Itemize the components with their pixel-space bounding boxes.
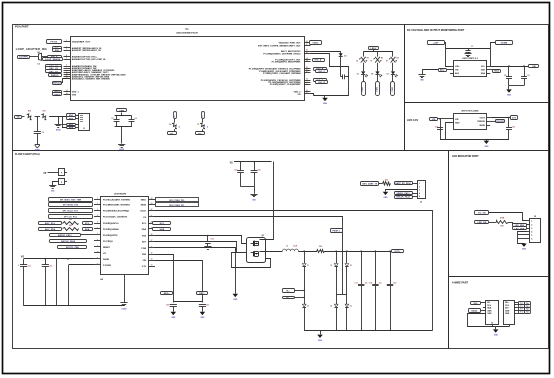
svg-text:C9: C9: [527, 75, 529, 77]
svg-text:ISO_E: ISO_E: [318, 82, 325, 84]
svg-text:SWCLK: SWCLK: [53, 83, 62, 85]
net label DBG_TX: [361, 182, 379, 186]
svg-text:P-DVDD: P-DVDD: [103, 265, 111, 267]
svg-text:PT100: PT100: [51, 41, 58, 43]
svg-text:SWDIO_PA13: SWDIO_PA13: [397, 192, 410, 195]
svg-text:J1: J1: [83, 128, 85, 130]
wire vertical stub 3: [56, 259, 58, 306]
svg-text:MISO: MISO: [141, 200, 147, 202]
svg-text:10: 10: [66, 73, 68, 75]
section frame 4-wire part: [449, 277, 549, 349]
section frame flow chart part: [13, 151, 449, 349]
capacitor C15: [254, 162, 256, 171]
svg-text:10: 10: [97, 251, 99, 253]
capacitor C6: [131, 116, 133, 120]
capacitor C11: [508, 118, 510, 128]
wire left down rail: [440, 119, 442, 140]
svg-text:SCL: SCL: [85, 223, 90, 225]
svg-text:GND: GND: [487, 313, 492, 315]
wire J3 bottom stub: [492, 325, 494, 327]
svg-text:5: 5: [66, 58, 67, 60]
svg-text:R4: R4: [396, 57, 398, 60]
net label SWCLK (left row 12 via jog): [53, 82, 62, 85]
svg-text:11: 11: [66, 75, 68, 77]
svg-text:GND: GND: [507, 95, 512, 97]
svg-text:C10: C10: [435, 126, 438, 128]
svg-text:Z3: Z3: [330, 265, 332, 267]
svg-text:SDA2: SDA2: [471, 309, 478, 312]
capacitor C12 polarized: [20, 264, 27, 266]
svg-text:SCL: SCL: [160, 223, 165, 225]
svg-text:VS: VS: [230, 162, 234, 164]
LED D3: [361, 71, 365, 74]
svg-text:DBG_UART_TX: DBG_UART_TX: [362, 183, 378, 186]
net label SWDIO (left row 10): [49, 74, 62, 77]
svg-text:SN2: SN2: [69, 118, 74, 120]
net label PWRGD tag: [490, 121, 495, 123]
svg-text:EXT_REF2_OUT/FB_SENSE/COMP1_OU: EXT_REF2_OUT/FB_SENSE/COMP1_OUT: [258, 46, 301, 48]
net label SWD_IO (U4 left row7): [50, 234, 81, 237]
net label VIN24 power tag: [428, 41, 445, 45]
svg-text:470R: 470R: [500, 217, 505, 220]
capacitor C16 gate filter: [207, 236, 209, 242]
resistor R12 vertical tag: [174, 112, 177, 119]
net label SPI MOSI (U4 left row2): [49, 203, 93, 207]
svg-text:28: 28: [306, 41, 308, 43]
wire row12 feed: [69, 264, 95, 266]
resistor R2 (LED string 1): [363, 52, 365, 57]
svg-text:2K2: 2K2: [69, 225, 72, 227]
svg-text:6: 6: [66, 64, 67, 66]
svg-text:C7: C7: [471, 46, 473, 48]
svg-text:C14: C14: [234, 169, 237, 172]
wire U4 ground stem: [124, 275, 126, 303]
wire sense lower branch: [63, 117, 67, 128]
connector J4: [504, 301, 515, 325]
net label LED_EN: [475, 221, 489, 224]
wire PWM low to gate bus: [155, 217, 343, 295]
net label VDD2 (right row 1): [310, 41, 322, 45]
wire DC_OK to J2 pin1: [489, 213, 527, 221]
svg-text:C12: C12: [28, 265, 31, 267]
svg-text:FLOW CHART (PGA): FLOW CHART (PGA): [15, 153, 40, 156]
wire R11 to tag block: [49, 116, 66, 118]
svg-text:18: 18: [151, 234, 153, 236]
svg-text:P1.2/IRQ4/SPI1_MISO/PWM1: P1.2/IRQ4/SPI1_MISO/PWM1: [272, 61, 302, 64]
net label OSC_X1 (left row 6): [46, 65, 62, 68]
svg-text:4: 4: [419, 192, 420, 195]
svg-text:SDA: SDA: [85, 228, 90, 231]
svg-text:C19: C19: [393, 283, 396, 285]
svg-text:VDD2/ISO_PWR_OUT: VDD2/ISO_PWR_OUT: [279, 42, 302, 44]
capacitor C21: [199, 304, 206, 306]
svg-text:4: 4: [531, 230, 532, 233]
svg-text:SWDIO_PA13: SWDIO_PA13: [58, 234, 72, 237]
svg-text:C13: C13: [49, 265, 52, 267]
svg-text:MCU_XTAL1_PF0: MCU_XTAL1_PF0: [169, 199, 184, 202]
net label REF+ tag: [161, 292, 173, 295]
svg-text:C16: C16: [211, 238, 214, 240]
wire bottom rail left: [24, 305, 124, 307]
net label 3V3 tag: [511, 116, 518, 120]
wire tags to J3: [480, 302, 485, 304]
resistor R3 (LED string 2): [377, 52, 379, 57]
svg-text:10u: 10u: [379, 283, 382, 285]
svg-text:DIO: DIO: [505, 308, 509, 310]
svg-text:2: 2: [531, 224, 532, 226]
wire R10 to junction: [35, 116, 41, 118]
capacitor C7 on rail: [468, 49, 470, 51]
wire N1 to AIN tag: [42, 56, 48, 58]
svg-text:ADJ: ADJ: [455, 72, 459, 75]
svg-text:3: 3: [531, 228, 532, 230]
ground group B: [118, 144, 125, 146]
ground C21: [200, 312, 206, 315]
svg-text:SCL: SCL: [142, 223, 147, 225]
svg-text:1: 1: [66, 40, 67, 42]
svg-text:VM: VM: [532, 66, 535, 68]
wire J4 bottom stub: [509, 325, 511, 327]
wire LED top rail: [363, 51, 393, 53]
LED D4: [375, 71, 379, 74]
wire VDDM down to U2: [491, 43, 496, 67]
net label XTAL1 (U4 right row1): [156, 198, 199, 202]
ground jumper group: [49, 185, 56, 187]
svg-text:AIN10/ADC3_GAIN/INT_REF_EN/SW5: AIN10/ADC3_GAIN/INT_REF_EN/SW5: [72, 77, 111, 80]
svg-text:GND: GND: [522, 249, 527, 251]
svg-text:J5: J5: [420, 201, 422, 203]
svg-text:8: 8: [66, 69, 67, 71]
svg-text:LED_GRN: LED_GRN: [515, 228, 525, 230]
U1 right pin stubs: [304, 42, 311, 44]
svg-text:ISO_A: ISO_A: [315, 59, 322, 62]
svg-text:MOSI: MOSI: [141, 205, 147, 207]
svg-text:R16: R16: [319, 246, 322, 248]
svg-text:22: 22: [151, 209, 153, 211]
svg-text:VDI: VDI: [143, 260, 147, 262]
wire U3 gnd pin down: [446, 123, 451, 140]
wire top rail: [446, 48, 491, 50]
net label RIN+ (left row 2): [53, 47, 62, 50]
net label grid right of J4: [519, 302, 525, 305]
wire tags to J2 pins: [526, 224, 527, 226]
section frame LDO 3.3V: [405, 103, 549, 151]
svg-text:P0.7/IRQ3: P0.7/IRQ3: [103, 241, 114, 243]
svg-text:3: 3: [419, 190, 420, 192]
svg-text:SCL: SCL: [473, 303, 478, 305]
svg-text:+24V: +24V: [433, 41, 439, 44]
net label SWD_CLK (U4 left row8): [50, 240, 87, 243]
net label K2: [196, 132, 205, 135]
svg-text:P0.4/IRQ0/SCL0: P0.4/IRQ0/SCL0: [103, 222, 119, 225]
svg-text:16: 16: [151, 246, 153, 248]
op-amp U1 isolation amplifier IC body: [71, 37, 305, 101]
svg-text:R3: R3: [381, 58, 383, 60]
resistor R11 diagonal: [41, 113, 48, 120]
svg-text:U4 STM32F0: U4 STM32F0: [114, 192, 127, 195]
wire J4 pins to tag grid: [514, 302, 519, 304]
net label ISO_C (right row 8): [316, 70, 328, 73]
svg-text:P0.1/MISO/UART_RX/TMR1: P0.1/MISO/UART_RX/TMR1: [103, 204, 131, 207]
svg-text:VM: VM: [432, 119, 435, 121]
microcontroller U4 body: [101, 197, 149, 275]
wire REF tie: [173, 301, 202, 303]
net label OSC_X3 (left row 8): [46, 70, 62, 73]
svg-text:RESET: RESET: [103, 247, 111, 249]
svg-text:GND: GND: [484, 146, 489, 148]
ground J2: [521, 244, 527, 247]
net label ISO_D (right row 10): [314, 79, 327, 82]
transistor Q1 dual MOSFET package: [247, 238, 266, 263]
diode Z3 Z4 string: [336, 251, 338, 263]
ground hatched near tag block: [58, 117, 60, 124]
net label ADC_SCL + resistor row5: [39, 222, 62, 225]
svg-text:ADC_SDA: ADC_SDA: [45, 228, 56, 231]
svg-text:LED_EN: LED_EN: [478, 222, 487, 224]
wire bottom return bus: [311, 94, 314, 96]
svg-text:25: 25: [306, 52, 308, 54]
svg-text:AIN1/EXT_REF2IN-/ADC1_IN: AIN1/EXT_REF2IN-/ADC1_IN: [72, 49, 101, 52]
ground VS decouple: [254, 187, 256, 194]
capacitor C17 output: [361, 251, 363, 284]
svg-text:VDD: VDD: [481, 70, 486, 72]
svg-text:VSS: VSS: [142, 235, 147, 237]
net label ISO_A (right row 5): [313, 59, 325, 62]
svg-text:D6: D6: [169, 124, 171, 126]
svg-text:GND1: GND1: [54, 94, 61, 96]
connector J3: [486, 301, 499, 325]
svg-text:12: 12: [97, 263, 99, 265]
svg-text:D4: D4: [371, 73, 373, 76]
wire VS decouple rail: [234, 161, 272, 163]
resistor R15: [497, 221, 509, 224]
section frame LED indicator part: [449, 151, 549, 277]
wire R15 to label tags: [508, 222, 513, 224]
ground U4 hatched: [120, 302, 127, 304]
svg-text:GND: GND: [505, 310, 510, 312]
svg-text:ISO_C: ISO_C: [318, 71, 325, 73]
svg-text:1: 1: [419, 183, 420, 185]
svg-text:PWM_L: PWM_L: [332, 230, 341, 232]
svg-text:VIN: VIN: [455, 70, 459, 72]
net label SDA1 (U4 right row6): [155, 228, 157, 230]
wire VIN24 down to U2: [445, 43, 451, 67]
svg-text:23: 23: [306, 60, 308, 62]
svg-text:23: 23: [151, 203, 153, 205]
svg-text:AIN3/IEXC1/PT100_EXC-/CMP_IN: AIN3/IEXC1/PT100_EXC-/CMP_IN: [72, 58, 106, 61]
connector J5: [418, 181, 426, 199]
ground J5: [383, 192, 389, 195]
net label BOOT (U4 left row9): [58, 246, 87, 249]
svg-text:SN4: SN4: [69, 127, 74, 130]
net label SPI SCLK (U4 left row3): [49, 209, 93, 213]
wire J3 loop left: [468, 314, 510, 327]
svg-text:16: 16: [306, 90, 308, 92]
ground 4-wire: [495, 327, 497, 329]
svg-text:6: 6: [531, 238, 532, 240]
net label K1: [168, 132, 177, 135]
svg-text:22: 22: [306, 67, 308, 69]
wire VS to F1: [48, 172, 59, 174]
net label ISENSE+: [283, 289, 295, 293]
svg-text:R11: R11: [43, 111, 46, 113]
svg-text:SWDIO: SWDIO: [51, 75, 59, 77]
svg-text:SPI_SCLK_PC1: SPI_SCLK_PC1: [63, 210, 80, 212]
svg-text:VDE: VDE: [142, 254, 147, 256]
svg-text:Z2: Z2: [307, 306, 309, 308]
diode D7 diagonal: [199, 122, 206, 129]
svg-text:17: 17: [151, 240, 153, 242]
svg-text:27: 27: [306, 44, 308, 46]
svg-text:2: 2: [419, 186, 420, 188]
svg-text:BOOT0_PB8: BOOT0_PB8: [66, 247, 80, 249]
svg-text:VSS: VSS: [72, 94, 77, 96]
wire output rail: [325, 251, 392, 253]
svg-text:2K2: 2K2: [69, 219, 72, 221]
svg-text:15: 15: [151, 252, 153, 254]
wire gate2 drive: [155, 242, 247, 253]
svg-text:SPI_MOSI_TX0: SPI_MOSI_TX0: [63, 205, 79, 207]
svg-text:GND: GND: [200, 317, 205, 319]
svg-text:R2: R2: [367, 58, 369, 60]
net label AIN_F (left row 4): [48, 56, 62, 59]
svg-text:MCU_XTAL2_PF1: MCU_XTAL2_PF1: [169, 204, 184, 207]
svg-text:C21: C21: [206, 304, 209, 306]
net label ISENSE-: [283, 297, 295, 299]
svg-text:VOUT: VOUT: [479, 117, 485, 119]
net label DBG_SWCLK: [395, 196, 413, 199]
capacitor C8: [508, 66, 510, 77]
svg-text:VDD2: VDD2: [312, 42, 319, 44]
diode Z5 Z6 string: [346, 251, 348, 263]
svg-text:Z1: Z1: [307, 265, 309, 267]
svg-text:VS: VS: [21, 255, 25, 258]
svg-text:VDDA/VREF_OUT: VDDA/VREF_OUT: [72, 40, 91, 43]
section frame PGA part: [13, 25, 405, 151]
svg-text:S3: S3: [526, 312, 528, 314]
inductor L2: [282, 249, 298, 251]
svg-text:SDA: SDA: [487, 307, 492, 310]
capacitor C19 output: [390, 251, 392, 284]
net label SENSE4: [67, 127, 76, 129]
LED D5: [391, 71, 395, 74]
svg-text:R10: R10: [28, 111, 31, 113]
svg-text:18: 18: [306, 81, 308, 83]
svg-text:C20: C20: [166, 304, 169, 306]
diode Z1 Z2 string: [304, 251, 306, 263]
wire PWM high long: [155, 211, 433, 331]
svg-text:VRB: VRB: [119, 110, 124, 112]
svg-text:Z5: Z5: [350, 265, 352, 267]
svg-text:SDA: SDA: [481, 72, 486, 75]
svg-text:P0.6/IRQ2/RTS: P0.6/IRQ2/RTS: [103, 235, 118, 237]
svg-text:UART_RX_PA10: UART_RX_PA10: [395, 182, 411, 185]
resistor R17: [379, 183, 383, 185]
svg-text:GND: GND: [384, 197, 389, 199]
connector J2: [530, 219, 541, 243]
net label VIN_A: [15, 116, 22, 119]
svg-text:ADJ: ADJ: [440, 69, 445, 72]
net label SCL1 (U4 right row5): [155, 223, 157, 225]
wire REF- branch: [155, 261, 203, 303]
net label LOOP_SENSE (left row 5): [43, 58, 63, 61]
svg-text:VDDM: VDDM: [501, 42, 508, 44]
net label OSC_X2 (left row 7): [46, 67, 62, 70]
ground caps: [508, 86, 510, 90]
svg-text:19: 19: [306, 78, 308, 80]
svg-text:GND: GND: [323, 103, 328, 105]
svg-text:11: 11: [97, 257, 99, 259]
svg-text:GND: GND: [487, 310, 492, 312]
svg-text:LOOP_SENSE: LOOP_SENSE: [45, 59, 61, 61]
wire source loop: [232, 253, 271, 268]
net label SENSE2: [67, 117, 76, 120]
wire right row 4 bus: [311, 54, 349, 96]
svg-text:VS: VS: [43, 173, 47, 175]
net label DBG_SWDIO: [395, 192, 413, 195]
ground U2 left: [447, 69, 451, 71]
wire gate bus jog: [336, 294, 347, 296]
testpoint TP2: [376, 82, 380, 96]
svg-text:P2.2/IRQ10/EXT_CLKIN/PWM7: P2.2/IRQ10/EXT_CLKIN/PWM7: [270, 84, 301, 86]
svg-text:21: 21: [306, 69, 308, 71]
svg-text:13: 13: [66, 90, 68, 92]
section frame DC voltage and output monitoring part: [405, 25, 549, 103]
svg-text:5: 5: [419, 196, 420, 198]
svg-text:GND: GND: [171, 317, 176, 319]
svg-text:DGND: DGND: [103, 259, 110, 261]
wire U2 output rail: [490, 66, 529, 68]
svg-text:R12: R12: [174, 115, 176, 118]
regulator U3: [454, 114, 487, 130]
svg-text:DGND: DGND: [122, 309, 128, 311]
ground C7: [464, 53, 471, 55]
wire LOOP_IN to N1: [30, 56, 37, 58]
svg-text:10u: 10u: [365, 283, 368, 285]
svg-text:VD: VD: [298, 94, 301, 96]
connector J1: [79, 114, 90, 131]
svg-text:P0.2/MOSI/ECLKOUT/IRQ1: P0.2/MOSI/ECLKOUT/IRQ1: [103, 210, 130, 212]
wire L2 to output rail: [298, 251, 317, 253]
svg-text:LED INDICATOR PART: LED INDICATOR PART: [452, 155, 479, 158]
svg-text:VIN: VIN: [455, 119, 459, 121]
wire Q1 source to L2: [260, 251, 283, 253]
U1 left pin stubs: [64, 41, 71, 43]
resistor R16 shunt: [317, 250, 325, 253]
svg-text:5: 5: [531, 235, 532, 237]
fuse F2: [59, 179, 65, 185]
svg-text:C11: C11: [512, 126, 515, 128]
net label ADC_SDA + resistor row6: [39, 228, 62, 231]
wire F2 to ground: [53, 182, 59, 186]
svg-text:SDA: SDA: [160, 228, 165, 231]
wire gate1 drive: [155, 236, 247, 244]
svg-text:D3: D3: [357, 74, 359, 76]
svg-text:REF+: REF+: [164, 293, 170, 295]
wire VREF_B split: [121, 113, 123, 116]
wire REF+ branch: [155, 255, 174, 303]
wire LED_EN to R15: [489, 222, 496, 224]
svg-text:SHDN: SHDN: [479, 125, 485, 127]
svg-text:GND: GND: [505, 313, 510, 315]
capacitor C18 output: [375, 251, 377, 284]
svg-text:Z6: Z6: [350, 306, 352, 308]
svg-text:C6: C6: [135, 118, 137, 120]
net label SENSE1: [67, 114, 76, 117]
capacitor C10: [437, 127, 443, 129]
svg-text:REF-: REF-: [199, 293, 204, 295]
svg-text:2: 2: [66, 46, 67, 48]
